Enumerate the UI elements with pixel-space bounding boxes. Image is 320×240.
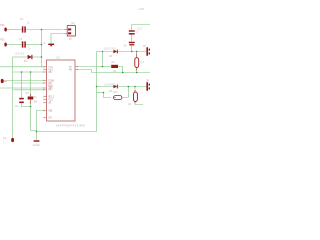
svg-text:D2: D2: [109, 55, 113, 58]
wire pad3 row pin4: [7, 80, 44, 82]
svg-text:R8: R8: [26, 92, 30, 95]
svg-text:1u: 1u: [28, 47, 31, 51]
wire O2 bottom bend: [135, 101, 143, 104]
wire IC pin1 bend: [42, 66, 45, 68]
svg-text:TC1: TC1: [48, 99, 53, 101]
svg-text:LEDRED: LEDRED: [104, 84, 116, 87]
svg-text:JP: JP: [143, 44, 146, 48]
svg-text:R2: R2: [112, 61, 116, 64]
wire net row1: [0, 25, 150, 141]
wire IC right pin row B bend: [78, 70, 92, 73]
svg-text:BAT54: BAT54: [16, 53, 25, 56]
svg-text:Q2: Q2: [128, 103, 132, 106]
svg-text:JR: JR: [48, 102, 51, 104]
svg-text:1: 1: [3, 141, 5, 145]
svg-text:C7: C7: [136, 31, 140, 34]
node C3R1: [30, 106, 32, 108]
svg-text:P6: P6: [69, 67, 73, 69]
svg-text:+3V3: +3V3: [138, 7, 145, 11]
LDR outline box: [113, 91, 122, 100]
wire IC pin3 row: [13, 71, 45, 73]
svg-text:BT: BT: [69, 38, 73, 41]
pad P4 bottom: [3, 137, 14, 145]
wire diode D1 right: [33, 56, 42, 58]
svg-text:XIN: XIN: [48, 110, 52, 112]
svg-text:TC: TC: [34, 96, 37, 99]
wire polcap A to node: [131, 46, 133, 52]
svg-text:G: G: [44, 42, 46, 45]
svg-text:C1: C1: [20, 17, 24, 21]
node bus2 R2: [122, 72, 124, 74]
wire beta bend to LDR: [104, 93, 112, 98]
svg-text:JP: JP: [146, 79, 149, 83]
diode D3: [104, 84, 117, 93]
connector JP3 right edge: [146, 79, 150, 91]
wire JP1 pin2 to gnd corner: [51, 34, 64, 45]
wire O2 top stub: [134, 87, 136, 93]
wire long vertical x96.5: [96, 52, 98, 132]
svg-text:P$1: P$1: [0, 23, 5, 27]
capacitor C1: [20, 17, 30, 33]
wire pad1 to C1: [7, 29, 22, 31]
pin cross ticks: [44, 66, 78, 119]
node bus2 O1: [136, 72, 138, 74]
svg-text:LDR: LDR: [113, 91, 118, 94]
node pin3-x30: [30, 71, 32, 73]
wire R2 to bend: [118, 67, 123, 73]
svg-text:AGND: AGND: [33, 144, 40, 147]
ground GND1: [44, 42, 55, 46]
wire row pin5: [14, 82, 45, 84]
junction node dots: [21, 29, 138, 133]
wire XIN pin bend: [37, 111, 45, 141]
wire D2 row: [97, 51, 114, 53]
svg-text:JP1: JP1: [71, 22, 76, 26]
svg-text:RS_2: RS_2: [48, 96, 54, 98]
node pin3-x21: [21, 71, 23, 73]
node bus-gnd: [36, 131, 38, 133]
wire vertical x30.5: [30, 72, 32, 96]
connector JP1: [64, 22, 75, 42]
svg-text:VCC: VCC: [48, 67, 53, 69]
capacitor C6 polarized: [124, 40, 135, 48]
wire C2 to node V1: [26, 44, 42, 46]
svg-text:VB: VB: [48, 72, 52, 74]
pad P2: [0, 38, 7, 47]
wire row pin6: [0, 87, 44, 89]
svg-text:P$2: P$2: [0, 38, 5, 42]
wire IC right pin row A: [78, 66, 111, 68]
wire pad2 to C2: [7, 44, 22, 46]
node D3row B: [134, 86, 136, 88]
diode D1: [16, 53, 32, 63]
wire bus2 y72.5: [92, 72, 151, 74]
crystal Q2 oval: [128, 90, 137, 106]
svg-text:1M: 1M: [34, 101, 37, 104]
IC pin names: [48, 67, 72, 120]
IC U1 box: [47, 56, 86, 128]
wire vertical node V1: [41, 30, 43, 67]
wire C1 to JP1 pin1: [26, 29, 64, 31]
node V1-diode: [41, 56, 43, 58]
wire LDR right bend up: [122, 87, 128, 98]
wire row pin7: [14, 89, 45, 91]
node D3row A: [128, 86, 130, 88]
wire D2 to connector: [118, 51, 147, 53]
node D2row A: [131, 51, 133, 53]
wire R1 bottom: [31, 104, 37, 131]
svg-text:XO: XO: [48, 117, 52, 119]
svg-text:C2: C2: [19, 37, 23, 41]
ground GND2: [33, 141, 40, 147]
wire vertical x12.5: [12, 57, 14, 138]
svg-text:TP: TP: [3, 137, 7, 141]
node D2row B: [136, 51, 138, 53]
svg-text:SA: SA: [48, 89, 52, 92]
wire diode D1 left: [13, 56, 28, 58]
svg-text:P6: P6: [69, 69, 73, 71]
svg-text:1u: 1u: [27, 21, 30, 25]
wire C3 bottom stub: [22, 103, 31, 106]
crystal Q1 oval: [135, 54, 145, 71]
capacitor C2: [19, 37, 31, 51]
node V1-row2: [41, 44, 43, 46]
wire D3 to connector JP3: [118, 86, 147, 88]
svg-text:IC1: IC1: [56, 56, 61, 60]
pad P1: [0, 23, 7, 32]
diode D2: [104, 48, 117, 59]
svg-text:C8: C8: [124, 45, 128, 48]
wire vertical from dot102: [102, 52, 104, 67]
svg-text:LEDGRN: LEDGRN: [104, 48, 116, 51]
connector JP2 right edge: [143, 44, 151, 56]
svg-text:+: +: [124, 40, 126, 43]
wire top right corner: [132, 25, 150, 31]
wire bottom bus: [37, 131, 97, 133]
node D2 row left: [102, 51, 103, 52]
resistor R1 vertical column: [26, 92, 38, 104]
wire cap col A mid: [131, 35, 133, 42]
svg-text:MSP430F413IPM: MSP430F413IPM: [57, 123, 86, 127]
IC left pins: [44, 67, 47, 118]
node V1-row1: [41, 29, 43, 31]
wire vertical x21.5: [21, 72, 23, 98]
wire D3 row: [97, 86, 114, 88]
capacitor C5 top right: [129, 31, 140, 34]
svg-text:D1: D1: [24, 59, 28, 63]
wire beta row: [97, 92, 104, 94]
pad P3: [1, 79, 7, 83]
node D3row left: [96, 86, 98, 88]
IC right pins: [75, 67, 78, 70]
node beta: [103, 92, 105, 94]
capacitor C3 vertical: [15, 99, 24, 108]
wire O1 top stub: [136, 52, 138, 58]
svg-text:Q1: Q1: [141, 61, 145, 64]
svg-text:22p: 22p: [15, 105, 20, 108]
wire IC pin1 row: [0, 66, 44, 68]
wire O1 bottom stub: [136, 68, 138, 73]
node R2 left: [102, 66, 104, 68]
resistor R2 horizontal: [111, 61, 118, 73]
svg-text:VCC: VCC: [137, 28, 142, 31]
